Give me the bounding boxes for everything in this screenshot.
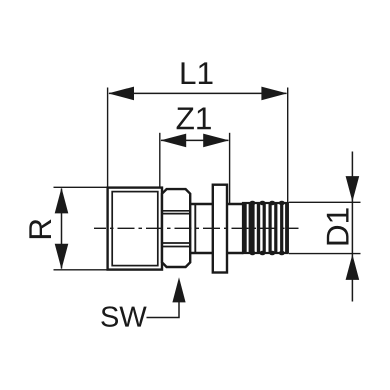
label R [29, 219, 51, 238]
centerline (dash-dot, drawn over part) [94, 227, 299, 229]
thread body inner (thread root) [112, 192, 158, 266]
cylinder after flange [227, 204, 244, 253]
hex nut [162, 189, 190, 267]
rib crest bumps top [250, 201, 256, 206]
L1 arrow right [261, 87, 287, 101]
dimension L1 extension lines [108, 88, 288, 203]
rib bars [243, 201, 288, 256]
hex face lines [162, 211, 190, 247]
dimension L1 line [109, 92, 287, 94]
D1 arrow bottom (outside, pointing up) [346, 254, 360, 280]
dimension Z1 extension lines [160, 133, 230, 203]
end face [287, 202, 289, 253]
SW leader line [147, 302, 180, 318]
neck chamfer line [194, 205, 196, 252]
R arrow bottom [55, 244, 69, 270]
dimension D1 line [351, 152, 353, 302]
dimension R line [61, 189, 63, 269]
Z1 arrow left [160, 134, 186, 148]
label D1 [327, 208, 349, 244]
dimension D1 extension lines [289, 202, 361, 253]
rib crest bumps bottom [250, 251, 256, 256]
R arrow top [55, 188, 69, 214]
flange collar [213, 185, 227, 273]
neck between hex and flange [190, 204, 213, 253]
label L1 [182, 62, 213, 84]
dimension R extension lines [54, 187, 107, 269]
label SW [101, 306, 146, 327]
D1 arrow top (outside, pointing down) [346, 176, 360, 202]
L1 arrow left [108, 87, 134, 101]
dimension Z1 line [161, 139, 228, 141]
SW arrow (pointing up at hex) [172, 277, 185, 302]
label Z1 [177, 108, 211, 130]
ribbed press end [243, 201, 288, 256]
thread body outer [108, 188, 162, 270]
Z1 arrow right [203, 134, 229, 148]
